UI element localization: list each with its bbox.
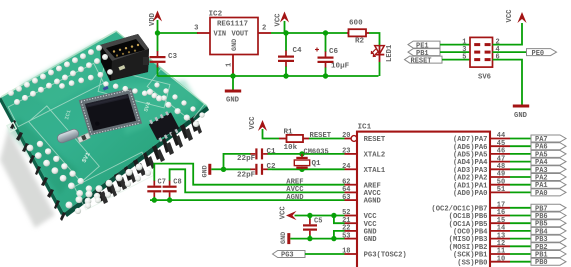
wire PB3 bbox=[510, 238, 531, 240]
LED LED1 bbox=[371, 44, 394, 62]
IC1 pin 51 ((AD0)PA0) bbox=[490, 186, 510, 194]
IC1 pin 44 ((AD7)PA7) bbox=[490, 132, 510, 140]
wire C2 to XTAL1 bbox=[272, 168, 345, 170]
net flag PG3 bbox=[273, 251, 306, 260]
wire PA2 bbox=[510, 176, 531, 178]
svg-text:GND: GND bbox=[231, 39, 239, 51]
svg-text:(SS)PB0: (SS)PB0 bbox=[457, 259, 487, 267]
resistor R2 (600) bbox=[347, 20, 369, 46]
net flag PA6 bbox=[531, 143, 566, 152]
IC1 pin 23 (XTAL2) bbox=[342, 148, 357, 156]
svg-text:RESET: RESET bbox=[364, 136, 386, 144]
svg-text:10: 10 bbox=[497, 255, 505, 263]
net flag PE0 bbox=[527, 49, 557, 58]
svg-text:22pF: 22pF bbox=[237, 155, 256, 163]
PCB module photo: board bbox=[0, 31, 209, 228]
svg-text:PE0: PE0 bbox=[532, 50, 545, 58]
svg-text:VCC: VCC bbox=[506, 9, 514, 23]
IC1 pin 24 (XTAL1) bbox=[342, 163, 357, 171]
svg-text:LED1: LED1 bbox=[386, 44, 394, 62]
wire PB4 bbox=[510, 230, 531, 232]
wire PB7 bbox=[510, 207, 531, 209]
net flag PB0 bbox=[531, 258, 566, 267]
SV6 pin 2 bbox=[496, 38, 500, 46]
svg-text:GND: GND bbox=[364, 236, 378, 244]
wire PA0 bbox=[510, 191, 531, 193]
PCB photo: solder joint rows bbox=[8, 45, 205, 214]
svg-text:Q1: Q1 bbox=[312, 160, 322, 168]
wire RESET to SV6 pin5 bbox=[442, 59, 470, 61]
wire PG3 to IC1 bbox=[305, 253, 345, 255]
IC1 pin 47 ((AD4)PA4) bbox=[490, 155, 510, 163]
svg-text:51: 51 bbox=[497, 186, 505, 194]
PCB photo: header pins bottom-right bbox=[95, 117, 202, 204]
net flag PA7 bbox=[531, 135, 566, 144]
node VOUT-C6 bbox=[323, 30, 328, 35]
IC1 pin 14 ((OC0)PB4) bbox=[490, 225, 510, 233]
net flag PA4 bbox=[531, 158, 566, 167]
svg-text:VCC: VCC bbox=[249, 116, 257, 130]
IC1 pin 50 ((AD1)PA1) bbox=[490, 178, 510, 186]
IC1 pin 48 ((AD3)PA3) bbox=[490, 163, 510, 171]
svg-text:C7: C7 bbox=[158, 178, 166, 186]
node C6-rail bbox=[323, 73, 328, 78]
svg-text:C6: C6 bbox=[329, 48, 339, 56]
svg-text:3: 3 bbox=[194, 25, 198, 33]
connector SV6 bbox=[470, 37, 493, 81]
svg-text:SV6: SV6 bbox=[478, 74, 491, 82]
wire PA6 bbox=[510, 145, 531, 147]
svg-text:PG3(TOSC2): PG3(TOSC2) bbox=[364, 252, 407, 260]
node GND branch bbox=[331, 236, 336, 241]
supply VDD bbox=[149, 11, 162, 27]
wire PA7 bbox=[510, 138, 531, 140]
crystal Q1 (CM6035) bbox=[294, 148, 328, 169]
net flag PB7 bbox=[531, 204, 566, 213]
wire SV6 pin2 to VCC bbox=[493, 23, 523, 45]
wire VOUT rail bbox=[271, 32, 347, 34]
net flag PB6 bbox=[531, 212, 566, 221]
wire PB1 bbox=[510, 253, 531, 255]
capacitor C7 bbox=[147, 178, 166, 200]
IC1 pin 15 ((OC1A)PB5) bbox=[490, 217, 510, 225]
voltage regulator IC2 bbox=[209, 11, 259, 55]
IC1 pin 11 ((SCK)PB1) bbox=[490, 248, 510, 256]
IC1 pin 18 (PG3(TOSC2)) bbox=[342, 248, 357, 256]
resistor R1 (10k) bbox=[279, 128, 309, 151]
net flag PA0 bbox=[531, 189, 566, 198]
microcontroller IC1 (ATmega128) bbox=[357, 123, 490, 267]
IC1 pin 12 ((MOSI)PB2) bbox=[490, 240, 510, 248]
wire PB5 bbox=[510, 222, 531, 224]
net flag PB4 bbox=[531, 227, 566, 236]
svg-text:REG1117: REG1117 bbox=[217, 21, 248, 29]
node GND-C5 bbox=[307, 236, 312, 241]
SV6 pin 3 bbox=[462, 46, 466, 54]
node C7-AGND bbox=[152, 197, 157, 202]
svg-text:VCC: VCC bbox=[279, 206, 287, 220]
capacitor C1 (22pF) bbox=[237, 148, 276, 163]
wire PB0 bbox=[510, 261, 531, 263]
IC1 pin 45 ((AD6)PA6) bbox=[490, 140, 510, 148]
capacitor C8 bbox=[163, 178, 182, 200]
net flag PB5 bbox=[531, 220, 566, 229]
net flag PE1 bbox=[408, 41, 440, 50]
PCB photo: MCU chip (TQFP64) bbox=[79, 88, 142, 136]
svg-text:GND: GND bbox=[280, 232, 288, 244]
svg-text:RESET: RESET bbox=[310, 132, 332, 140]
ground symbol (SV6) bbox=[513, 105, 529, 121]
wire PA5 bbox=[510, 153, 531, 155]
PCB photo: crystal can bbox=[56, 128, 80, 144]
IC1 pin 63 (AGND) bbox=[342, 194, 357, 202]
wire gnd to C2 bbox=[224, 168, 250, 170]
PCB photo: SOIC chip bbox=[147, 110, 180, 143]
node C4-rail bbox=[283, 73, 288, 78]
wire PE1 to SV6 pin1 bbox=[440, 44, 470, 46]
node VDD junction bbox=[155, 30, 160, 35]
svg-text:5: 5 bbox=[462, 53, 466, 61]
wire C1 to XTAL2 bbox=[272, 153, 345, 155]
svg-text:GND: GND bbox=[226, 97, 240, 105]
SV6 pin 5 bbox=[462, 53, 466, 61]
IC1 pin 62 (AREF) bbox=[342, 178, 357, 186]
svg-text:22pF: 22pF bbox=[237, 171, 256, 179]
wire R2 to LED1 bbox=[369, 33, 380, 45]
svg-text:XTAL2: XTAL2 bbox=[364, 152, 386, 160]
svg-text:GND: GND bbox=[514, 112, 528, 120]
wire AREF bbox=[154, 164, 344, 187]
IC2 pin 1 (GND) bbox=[226, 55, 234, 77]
IC2 pin 3 bbox=[194, 25, 210, 34]
PCB photo: IDC connector bbox=[100, 34, 149, 81]
wire RESET net bbox=[309, 132, 345, 140]
IC1 pin 64 (AVCC) bbox=[342, 186, 357, 194]
node VCC branch bbox=[331, 213, 336, 218]
IC1 pin 13 ((MISO)PB3) bbox=[490, 232, 510, 240]
SV6 pin 1 bbox=[462, 38, 466, 46]
IC1 pin 22 (GND) bbox=[342, 225, 357, 233]
net flag RESET bbox=[405, 56, 443, 65]
svg-text:C8: C8 bbox=[173, 178, 181, 186]
svg-text:R2: R2 bbox=[355, 37, 365, 45]
IC1 pin 53 (GND) bbox=[342, 232, 357, 240]
wire PB6 bbox=[510, 215, 531, 217]
ground symbol (regulator) bbox=[225, 76, 241, 105]
wire PB2 bbox=[510, 245, 531, 247]
PCB photo: silkscreen marks bbox=[7, 65, 153, 164]
svg-text:PB0: PB0 bbox=[535, 259, 548, 267]
svg-text:(AD0)PA0: (AD0)PA0 bbox=[453, 190, 488, 198]
IC1 pin 49 ((AD2)PA2) bbox=[490, 171, 510, 179]
wire VDD to node bbox=[157, 20, 159, 33]
wire SV6 pin6 to GND bbox=[493, 60, 523, 105]
supply VCC (regulator output) bbox=[275, 12, 290, 34]
svg-text:XTAL1: XTAL1 bbox=[364, 167, 386, 175]
PCB photo: silkscreen outlines bbox=[8, 63, 205, 209]
node C1/C2 ground bbox=[221, 167, 226, 172]
IC1 pin 10 ((SS)PB0) bbox=[490, 255, 510, 263]
capacitor C2 (22pF) bbox=[237, 163, 276, 179]
node crystal bottom bbox=[299, 167, 304, 172]
ground rail wire bbox=[158, 75, 379, 77]
wire LED1 to ground rail bbox=[379, 62, 381, 76]
svg-text:PA0: PA0 bbox=[535, 190, 548, 198]
svg-text:IC1: IC1 bbox=[358, 123, 372, 131]
IC1 pin 46 ((AD5)PA5) bbox=[490, 148, 510, 156]
svg-text:VIN: VIN bbox=[214, 31, 227, 39]
wire SV6 pin4 to PE0 bbox=[493, 51, 527, 53]
ground symbol (IC1) bbox=[280, 232, 290, 244]
capacitor C4 bbox=[278, 33, 302, 76]
ground symbol (crystal caps) bbox=[202, 164, 224, 178]
wire PB1 to SV6 pin3 bbox=[440, 51, 470, 53]
svg-text:R1: R1 bbox=[284, 128, 294, 136]
IC1 pin 52 (VCC) bbox=[342, 209, 357, 217]
net flag PA1 bbox=[531, 181, 566, 190]
capacitor C3 bbox=[150, 33, 178, 76]
net flag PB1 bbox=[408, 49, 440, 58]
node VCC-C5 bbox=[307, 213, 312, 218]
node C8-AGND bbox=[167, 197, 172, 202]
svg-text:AGND: AGND bbox=[364, 198, 382, 206]
IC1 pin 17 ((OC2/OC1C)PB7) bbox=[490, 202, 510, 210]
IC1 pin 21 (VCC) bbox=[342, 217, 357, 225]
net flag PB3 bbox=[531, 235, 566, 244]
net flag PA5 bbox=[531, 150, 566, 159]
svg-text:2: 2 bbox=[262, 25, 266, 33]
svg-text:10µF: 10µF bbox=[331, 63, 350, 71]
wire node to IC2 VIN bbox=[158, 32, 199, 34]
capacitor C6 (10uF) bbox=[315, 33, 350, 76]
svg-text:RESET: RESET bbox=[411, 57, 432, 65]
svg-text:600: 600 bbox=[349, 20, 363, 28]
SV6 pin 6 bbox=[496, 53, 500, 61]
svg-text:PG3: PG3 bbox=[281, 252, 294, 260]
net flag PB2 bbox=[531, 243, 566, 252]
svg-text:IC2: IC2 bbox=[209, 11, 223, 19]
PCB photo: header pins bottom-left bbox=[10, 120, 66, 221]
svg-text:10k: 10k bbox=[284, 144, 298, 152]
capacitor C5 bbox=[303, 216, 322, 239]
wire GND to IC1 bbox=[290, 231, 344, 239]
wire VCC to IC1 bbox=[295, 216, 345, 224]
wire PA4 bbox=[510, 161, 531, 163]
IC1 pin 20 (RESET) bbox=[342, 132, 357, 141]
svg-text:C3: C3 bbox=[168, 53, 178, 61]
supply VCC (SV6) bbox=[506, 9, 527, 23]
net flag PA2 bbox=[531, 174, 566, 183]
svg-text:AGND: AGND bbox=[286, 194, 304, 202]
supply VCC (reset pullup) bbox=[249, 116, 279, 139]
node IC2GND-rail bbox=[230, 73, 235, 78]
IC2 pin 2 bbox=[258, 25, 271, 34]
wire PA1 bbox=[510, 184, 531, 186]
wire AVCC bbox=[170, 169, 345, 194]
supply VCC (IC1) bbox=[279, 206, 296, 220]
svg-text:C4: C4 bbox=[293, 47, 303, 55]
SV6 pin 4 bbox=[496, 46, 500, 54]
svg-text:CM6035: CM6035 bbox=[304, 148, 329, 156]
net flag PB1 bbox=[531, 251, 566, 260]
svg-text:C5: C5 bbox=[314, 217, 322, 225]
IC1 pin 16 ((OC1B)PB6) bbox=[490, 209, 510, 217]
node VOUT-C4 bbox=[283, 30, 288, 35]
net flag PA3 bbox=[531, 166, 566, 175]
svg-text:GND: GND bbox=[202, 165, 210, 177]
node crystal top bbox=[299, 151, 304, 156]
svg-text:VOUT: VOUT bbox=[232, 31, 249, 39]
wire AGND bbox=[150, 194, 345, 202]
wire gnd up to C1 bbox=[224, 154, 250, 169]
wire PA3 bbox=[510, 168, 531, 170]
